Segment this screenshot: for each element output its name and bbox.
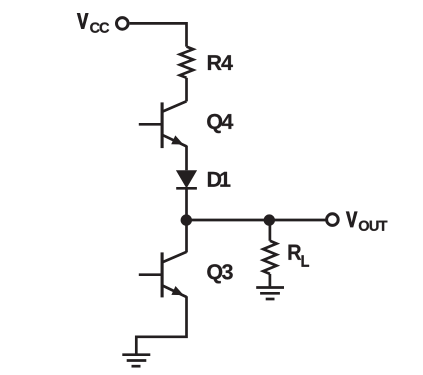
wire D1 to output node <box>185 188 188 220</box>
wire Q4 emitter to D1 <box>185 146 188 171</box>
terminal VCC <box>117 18 129 30</box>
label R4 <box>208 55 233 70</box>
diode D1 <box>176 170 197 188</box>
wire node to Q3 collector <box>185 220 188 252</box>
node junction dot (right) <box>264 214 275 225</box>
label RL <box>289 245 310 267</box>
resistor R4 <box>180 47 193 78</box>
label Q3 <box>207 264 232 283</box>
wire node to RL <box>269 220 272 241</box>
wire output line <box>186 219 326 222</box>
label VOUT <box>346 212 387 231</box>
label D1 <box>208 172 230 187</box>
label VCC <box>77 13 109 32</box>
wire Q3 emitter to ground <box>136 296 186 353</box>
ground (emitter) <box>122 355 150 367</box>
wire RL to ground <box>269 274 272 287</box>
ground (RL) <box>256 288 284 300</box>
wire R4 to Q4 collector <box>185 78 188 102</box>
transistor Q4 <box>139 101 187 148</box>
transistor Q3 <box>139 252 187 298</box>
node junction dot (left) <box>181 214 192 225</box>
wire VCC to top of R4 <box>130 23 187 46</box>
terminal VOUT <box>327 214 339 226</box>
resistor RL <box>263 241 276 274</box>
label Q4 <box>207 114 233 133</box>
